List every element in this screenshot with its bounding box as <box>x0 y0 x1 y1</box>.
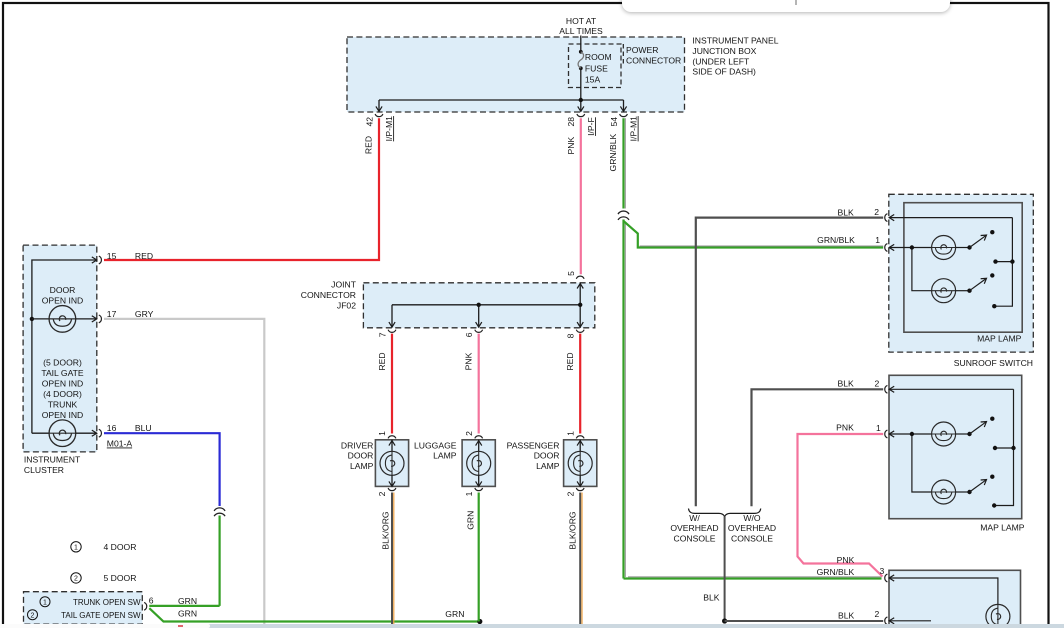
map lamp 1 box <box>904 203 1022 344</box>
svg-text:2: 2 <box>565 491 575 496</box>
svg-text:28: 28 <box>566 117 576 127</box>
svg-text:W/O: W/O <box>743 513 760 523</box>
svg-text:PNK: PNK <box>836 423 854 433</box>
svg-text:1: 1 <box>464 491 474 496</box>
pin 16 of instrument cluster M01-A <box>99 423 152 449</box>
svg-text:42: 42 <box>364 117 374 127</box>
svg-text:1: 1 <box>565 431 575 436</box>
svg-text:JF02: JF02 <box>337 300 356 310</box>
switch lever A map lamp 1 <box>967 230 994 250</box>
switch TRUNK OPEN SW / TAIL GATE OPEN SW <box>24 592 143 625</box>
svg-text:CLUSTER: CLUSTER <box>24 465 64 475</box>
svg-text:1: 1 <box>74 545 78 552</box>
switch lever B map lamp 2 <box>967 475 994 495</box>
cluster internal supply wire from pin 15 <box>32 257 97 433</box>
wire BLK/ORG passenger door lamp to ground run <box>567 493 582 625</box>
svg-text:GRN: GRN <box>178 596 197 606</box>
svg-text:PASSENGER: PASSENGER <box>507 440 560 450</box>
inline connector splice BLU-GRN <box>214 508 225 516</box>
svg-text:GRN/BLK: GRN/BLK <box>608 133 618 171</box>
pin 8 of JF02 <box>566 330 585 339</box>
svg-text:HOT AT: HOT AT <box>566 16 597 26</box>
svg-text:2: 2 <box>875 379 880 389</box>
svg-text:PNK: PNK <box>566 136 576 154</box>
svg-text:LAMP: LAMP <box>536 461 560 471</box>
svg-text:PNK: PNK <box>837 555 855 565</box>
svg-text:5: 5 <box>566 271 576 276</box>
svg-text:1: 1 <box>377 431 387 436</box>
svg-text:16: 16 <box>107 423 117 433</box>
pin 7 of JF02 <box>377 330 396 337</box>
svg-text:PNK: PNK <box>464 352 474 370</box>
pin 3 of room lamp <box>880 566 895 582</box>
svg-text:GRN: GRN <box>178 609 197 619</box>
svg-text:W/: W/ <box>689 513 700 523</box>
wire BLK ground run to room lamp pin 2 <box>725 610 884 621</box>
svg-text:CONNECTOR: CONNECTOR <box>626 56 681 66</box>
svg-text:DOOR: DOOR <box>348 451 374 461</box>
horizontal scrollbar overlay <box>0 624 1064 628</box>
svg-text:15: 15 <box>107 251 117 261</box>
map lamp 2 box <box>889 375 1025 532</box>
svg-text:JUNCTION BOX: JUNCTION BOX <box>692 46 756 56</box>
svg-text:15A: 15A <box>585 75 601 85</box>
svg-text:ROOM: ROOM <box>585 52 612 62</box>
svg-text:GRN: GRN <box>445 609 464 619</box>
svg-text:5 DOOR: 5 DOOR <box>104 573 137 583</box>
svg-text:BLK/ORG: BLK/ORG <box>380 511 390 550</box>
wire GRN luggage lamp down <box>465 493 478 622</box>
contact bar dots map lamp 1 <box>992 259 1015 308</box>
svg-text:7: 7 <box>377 332 387 337</box>
svg-text:LAMP: LAMP <box>350 461 374 471</box>
instrument cluster box <box>23 245 97 475</box>
lamp DOOR OPEN IND <box>32 285 97 332</box>
instrument panel junction box <box>347 36 779 113</box>
svg-text:BLK: BLK <box>838 610 855 620</box>
svg-text:INSTRUMENT: INSTRUMENT <box>24 455 81 465</box>
overhead console option brace <box>670 509 776 544</box>
svg-text:2: 2 <box>464 431 474 436</box>
svg-text:17: 17 <box>107 309 117 319</box>
pin 42 I/P-M1 <box>364 114 394 141</box>
label GRN/BLK map lamp 1 pin 1 <box>817 235 855 245</box>
label PNK map lamp 2 pin 1 <box>836 423 854 433</box>
lamp bulb A map lamp 2 <box>932 422 970 446</box>
power feed node HOT AT ALL TIMES <box>559 16 603 36</box>
svg-text:CONSOLE: CONSOLE <box>673 534 715 544</box>
wire GRY pin17 down-right <box>104 319 264 625</box>
svg-text:54: 54 <box>609 117 619 127</box>
svg-text:OVERHEAD: OVERHEAD <box>670 523 718 533</box>
svg-text:TAIL GATE OPEN SW: TAIL GATE OPEN SW <box>61 611 141 620</box>
inline connector splice on GRN/BLK wire <box>618 211 629 220</box>
lamp bulb B map lamp 2 <box>932 480 970 504</box>
svg-text:3: 3 <box>880 566 885 576</box>
lamp PASSENGER DOOR LAMP <box>507 431 597 497</box>
svg-text:MAP LAMP: MAP LAMP <box>977 334 1022 344</box>
svg-text:MAP LAMP: MAP LAMP <box>980 523 1025 533</box>
svg-text:DOOR: DOOR <box>50 285 76 295</box>
svg-text:DOOR: DOOR <box>534 451 560 461</box>
svg-text:TAIL GATE: TAIL GATE <box>41 368 84 378</box>
svg-text:LAMP: LAMP <box>433 451 457 461</box>
pin 5 of JF02 <box>566 271 584 279</box>
svg-text:6: 6 <box>149 596 154 606</box>
svg-text:2: 2 <box>874 207 879 217</box>
junction dot map lamp 1 pin 1 <box>910 245 914 249</box>
switch lever A map lamp 2 <box>967 417 994 437</box>
svg-text:8: 8 <box>566 333 576 338</box>
wire GRN trunk switch bottom run <box>149 608 480 621</box>
tooltip overlay top <box>622 0 950 12</box>
junction dot map lamp 2 pin 1 <box>910 432 914 436</box>
svg-text:RED: RED <box>364 136 374 154</box>
svg-text:2: 2 <box>875 609 880 619</box>
wire BLK map lamp 2 pin 2 to overhead console option <box>752 379 884 507</box>
junction dot cluster branch <box>30 317 34 321</box>
svg-text:BLK/ORG: BLK/ORG <box>567 511 577 550</box>
svg-text:FUSE: FUSE <box>585 63 608 73</box>
lamp bulb room lamp <box>986 604 1010 628</box>
power connector label <box>623 44 681 67</box>
junction dot GRN at luggage lamp drop <box>477 619 482 624</box>
svg-text:4 DOOR: 4 DOOR <box>104 542 137 552</box>
map lamp 1 internal wiring <box>889 218 1012 307</box>
junction box internal bus <box>376 100 627 111</box>
pin 2 of map lamp 1 <box>874 207 894 222</box>
pin 15 of instrument cluster <box>99 251 153 264</box>
wire PNK pin28 to joint connector pin 5 <box>566 118 581 274</box>
svg-text:ALL TIMES: ALL TIMES <box>559 26 603 36</box>
lamp LUGGAGE LAMP <box>414 431 495 497</box>
wire RED pin42 to instrument cluster pin 15 <box>104 118 379 260</box>
svg-text:OPEN IND: OPEN IND <box>42 379 84 389</box>
svg-text:SIDE OF DASH): SIDE OF DASH) <box>692 67 756 77</box>
svg-text:I/P-F: I/P-F <box>586 117 596 136</box>
wire PNK JF02 pin6 to luggage lamp <box>464 334 479 434</box>
svg-text:DRIVER: DRIVER <box>341 440 373 450</box>
svg-text:OPEN IND: OPEN IND <box>42 296 84 306</box>
svg-text:BLK: BLK <box>838 207 855 217</box>
svg-text:OPEN IND: OPEN IND <box>42 410 84 420</box>
svg-text:(UNDER LEFT: (UNDER LEFT <box>692 56 750 66</box>
svg-text:JOINT: JOINT <box>331 280 357 290</box>
pin 6 of JF02 <box>464 330 483 337</box>
fuse ROOM FUSE 15A <box>569 44 622 88</box>
sunroof switch box <box>889 194 1034 368</box>
room lamp box <box>889 570 1021 628</box>
wire fuse to internal bus <box>580 68 582 100</box>
lamp TAIL GATE / TRUNK OPEN IND <box>32 358 97 447</box>
svg-text:RED: RED <box>565 352 575 370</box>
pin 28 I/P-F <box>566 114 596 136</box>
svg-text:1: 1 <box>876 423 881 433</box>
svg-text:GRN: GRN <box>465 511 475 530</box>
svg-text:BLU: BLU <box>135 423 152 433</box>
svg-text:RED: RED <box>135 251 153 261</box>
wire GRN/BLK splice down to bottom-right run <box>624 220 626 579</box>
junction dot fuse-bus <box>579 98 583 102</box>
svg-text:I/P-M1: I/P-M1 <box>384 116 394 142</box>
svg-text:INSTRUMENT PANEL: INSTRUMENT PANEL <box>692 36 778 46</box>
switch lever B map lamp 1 <box>967 273 994 293</box>
svg-text:GRN/BLK: GRN/BLK <box>817 567 855 577</box>
pin 17 of instrument cluster <box>99 309 154 323</box>
pin 6 of trunk switch <box>144 596 154 611</box>
joint connector JF02 box <box>301 280 595 328</box>
svg-text:BLK: BLK <box>703 592 720 602</box>
lamp bulb A map lamp 1 <box>932 236 970 260</box>
wire GRN trunk switch to cluster riser <box>149 596 219 606</box>
junction dot BLK ground run <box>722 618 727 623</box>
wire BLK/ORG driver door lamp to ground run <box>380 493 393 625</box>
junction dot JF02 mid <box>477 303 481 307</box>
wire GRN/BLK pin54 down to splice <box>608 118 625 208</box>
contact bar dots map lamp 2 <box>992 446 1016 508</box>
legend 4 door <box>71 542 137 552</box>
pin 54 I/P-M1 <box>609 114 639 141</box>
room lamp internal wiring <box>889 578 998 621</box>
label GRN/BLK at room lamp pin 3 <box>817 567 855 577</box>
lamp DRIVER DOOR LAMP <box>341 431 409 497</box>
legend 5 door <box>71 573 137 583</box>
wire GRN/BLK branch to map lamp pin 1 <box>624 221 884 248</box>
wire BLU pin16 to splice <box>104 433 220 506</box>
map lamp 2 internal wiring <box>889 389 1013 505</box>
wire GRN splice to trunk switch run <box>219 516 221 606</box>
svg-text:RED: RED <box>377 352 387 370</box>
svg-text:BLK: BLK <box>838 379 855 389</box>
wire battery feed into junction box <box>580 36 582 52</box>
svg-text:LUGGAGE: LUGGAGE <box>414 440 457 450</box>
wire RED JF02 pin8 to passenger door lamp <box>565 334 580 434</box>
JF02 internal bus <box>389 283 583 328</box>
svg-text:6: 6 <box>464 332 474 337</box>
svg-text:2: 2 <box>74 576 78 583</box>
pin 1 of map lamp 1 <box>875 235 894 252</box>
svg-text:TRUNK OPEN SW: TRUNK OPEN SW <box>73 598 141 607</box>
svg-text:2: 2 <box>31 612 35 619</box>
wire GRN/BLK bottom run to room lamp pin 3 <box>624 577 882 579</box>
svg-text:TRUNK: TRUNK <box>48 400 78 410</box>
svg-text:SUNROOF SWITCH: SUNROOF SWITCH <box>954 358 1033 368</box>
svg-text:1: 1 <box>875 235 880 245</box>
lamp bulb B map lamp 1 <box>932 279 970 303</box>
wire BLK console run down to ground junction <box>703 517 724 622</box>
svg-text:I/P-M1: I/P-M1 <box>629 116 639 142</box>
svg-text:(5 DOOR): (5 DOOR) <box>43 358 82 368</box>
junction dot JF02 right <box>578 303 582 307</box>
svg-text:CONSOLE: CONSOLE <box>731 534 773 544</box>
svg-text:M01-A: M01-A <box>107 439 133 449</box>
svg-text:GRY: GRY <box>135 309 154 319</box>
wire PNK map lamp 2 pin 1 loop to room lamp pin 3 <box>798 434 884 577</box>
svg-text:1: 1 <box>43 599 47 606</box>
wire BLK map lamp 1 pin 2 to overhead console option <box>696 207 883 506</box>
svg-text:CONNECTOR: CONNECTOR <box>301 290 356 300</box>
svg-text:(4 DOOR): (4 DOOR) <box>43 389 82 399</box>
pin 2 of room lamp <box>875 609 895 625</box>
svg-text:POWER: POWER <box>626 45 658 55</box>
svg-text:GRN/BLK: GRN/BLK <box>817 235 855 245</box>
svg-text:2: 2 <box>377 491 387 496</box>
wire RED JF02 pin7 to driver door lamp <box>377 334 392 434</box>
svg-text:OVERHEAD: OVERHEAD <box>728 523 776 533</box>
pin 2 of map lamp 2 <box>875 379 895 394</box>
pin 1 of map lamp 2 <box>876 423 894 438</box>
